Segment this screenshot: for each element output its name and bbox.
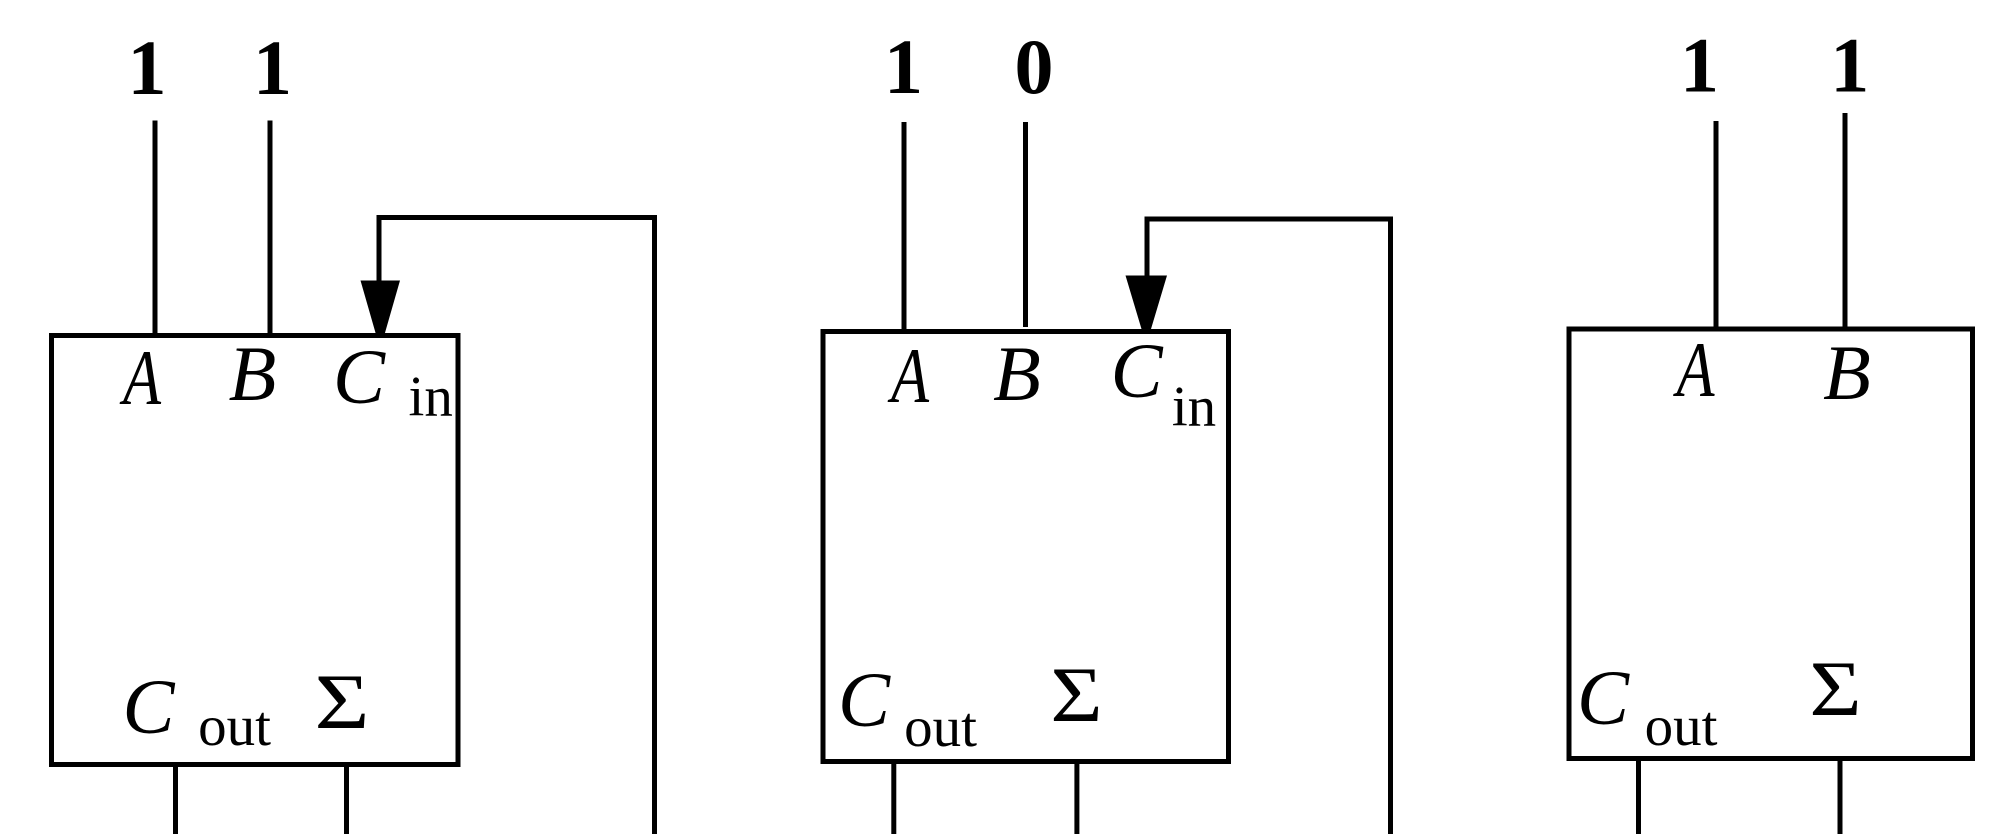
wire FA2 input B <box>268 121 273 334</box>
wire FA2 output Cout <box>173 764 178 834</box>
wire carry from FA0 Cout to FA1 Cin: horizontal run <box>1147 217 1391 222</box>
svg-text:B: B <box>993 330 1041 417</box>
wire FA0 input B <box>1843 113 1848 329</box>
arrowhead into FA1 Cin <box>1126 276 1168 335</box>
wire FA1 output Cout <box>891 761 896 834</box>
full adder FA1 (middle box) <box>823 332 1229 762</box>
svg-text:Σ: Σ <box>1050 652 1102 738</box>
svg-text:A: A <box>887 332 929 419</box>
wire FA0 output Cout <box>1636 758 1641 834</box>
svg-text:out: out <box>198 695 271 758</box>
wire FA1 input A <box>902 122 907 330</box>
svg-text:B: B <box>229 330 277 417</box>
svg-text:B: B <box>1823 329 1871 416</box>
wire carry from FA1 Cout to FA2 Cin: horizontal run <box>379 215 655 220</box>
svg-text:Σ: Σ <box>315 659 370 745</box>
wire FA2 output sum <box>344 764 349 834</box>
svg-text:C: C <box>122 663 175 750</box>
svg-text:in: in <box>1172 376 1216 439</box>
svg-text:C: C <box>1577 654 1630 741</box>
wire carry to FA2 Cin: vertical stub above arrowhead <box>377 215 382 282</box>
svg-text:out: out <box>904 696 977 759</box>
svg-text:1: 1 <box>1830 22 1869 109</box>
svg-text:out: out <box>1645 695 1718 758</box>
wire carry to FA1 Cin: vertical stub above arrowhead <box>1145 217 1150 278</box>
svg-text:1: 1 <box>1680 22 1719 109</box>
svg-text:A: A <box>119 334 161 421</box>
wire carry from FA1 Cout: vertical drop at right of FA2 <box>652 215 657 834</box>
wire FA1 input B <box>1023 122 1028 327</box>
wire FA1 output sum <box>1074 761 1079 834</box>
wire FA2 input A <box>153 121 158 334</box>
svg-text:0: 0 <box>1015 23 1054 110</box>
svg-text:in: in <box>409 366 453 429</box>
svg-text:Σ: Σ <box>1809 646 1861 732</box>
wire carry from FA0 Cout: vertical drop at right of FA1 <box>1388 217 1393 834</box>
full adder FA0 (right box) <box>1569 329 1973 759</box>
arrowhead into FA2 Cin <box>361 281 401 339</box>
svg-text:1: 1 <box>128 24 167 111</box>
svg-text:1: 1 <box>884 23 923 110</box>
wire FA0 output sum <box>1838 758 1843 834</box>
svg-text:A: A <box>1673 326 1715 413</box>
svg-text:C: C <box>838 656 891 743</box>
wire FA0 input A <box>1714 121 1719 329</box>
svg-text:1: 1 <box>253 24 292 111</box>
svg-text:C: C <box>1111 327 1164 414</box>
full adder FA2 (left box) <box>52 336 459 765</box>
svg-text:C: C <box>333 333 386 420</box>
